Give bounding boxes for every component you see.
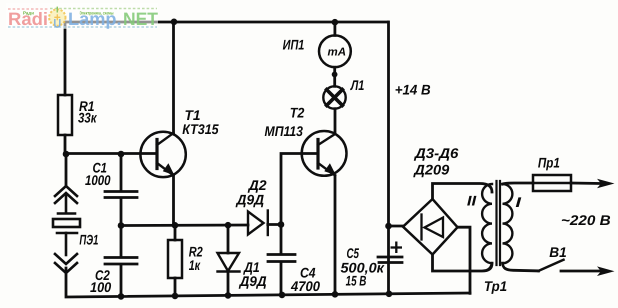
wire R2 branch [174, 225, 177, 240]
resistor R2 [168, 240, 182, 278]
wire C1 to node B [120, 198, 123, 226]
capacitor C4 [268, 255, 295, 262]
wire R1 to node A [64, 135, 67, 154]
wire bridge minus to bottom rail [458, 227, 471, 293]
wire winding II bottom to bridge bottom [433, 255, 493, 272]
logo dashed line bottom [8, 26, 157, 28]
logo lamp bulb [49, 7, 65, 27]
wire meter to top rail [333, 22, 336, 35]
svg-text:~220 В: ~220 В [561, 212, 611, 228]
fuse Pr1 [533, 175, 571, 191]
piezo PE1 top lead [65, 154, 68, 186]
wire mid rail [121, 224, 248, 227]
wire D1 to bottom rail [227, 272, 230, 295]
lamp L1 [323, 86, 345, 108]
capacitor C1 [105, 192, 137, 198]
wire C4 to bottom rail [280, 262, 283, 295]
wire bridge top to winding II [433, 184, 493, 200]
diode D2 [248, 211, 268, 236]
svg-text:4700: 4700 [290, 278, 320, 294]
svg-text:Т2: Т2 [290, 105, 305, 121]
switch B1 [539, 260, 564, 271]
wire fuse to line out [571, 182, 600, 185]
svg-text:В1: В1 [549, 244, 567, 260]
svg-text:100: 100 [90, 279, 111, 295]
wire T1 collector [172, 22, 175, 133]
svg-text:ИП1: ИП1 [283, 37, 305, 53]
transformer winding I [503, 184, 513, 263]
wire T1 emitter [172, 176, 175, 226]
T2 emitter arrow [324, 163, 336, 175]
svg-text:МП113: МП113 [265, 123, 304, 139]
svg-text:Д9Д: Д9Д [239, 273, 267, 289]
capacitor C5 [378, 257, 402, 263]
piezo PE1 [53, 186, 80, 273]
svg-text:Тр1: Тр1 [484, 278, 507, 294]
arrow line out top [597, 179, 615, 189]
svg-text:ПЭ1: ПЭ1 [79, 232, 98, 248]
wire left branch to R1 [64, 22, 67, 95]
wire PE1 to bottom rail [66, 268, 470, 297]
svg-text:Д209: Д209 [413, 162, 449, 178]
T1 emitter arrow [163, 163, 175, 175]
meter IP1 [319, 35, 351, 67]
wire node C to T2 base [281, 154, 318, 225]
svg-text:mA: mA [328, 47, 347, 59]
transistor T2 [302, 131, 347, 176]
transformer core [495, 181, 497, 265]
svg-text:II: II [467, 193, 478, 209]
svg-text:КТ315: КТ315 [182, 121, 218, 137]
arrow line out bottom [597, 266, 615, 276]
svg-text:Л1: Л1 [350, 77, 365, 93]
resistor R1 [58, 95, 72, 135]
transistor T1 [140, 132, 185, 177]
svg-text:Д3-Д6: Д3-Д6 [414, 145, 459, 161]
wire winding I bottom to switch [503, 263, 539, 271]
diode D1 [218, 253, 240, 272]
wire C2 to bottom rail [120, 265, 123, 297]
logo dashed line pink top [8, 8, 48, 10]
wire +14V rail [387, 22, 390, 294]
svg-text:Пр1: Пр1 [538, 155, 560, 171]
wire T2 collector to lamp [334, 109, 337, 134]
transformer winding II [482, 184, 492, 263]
wire switch to line out [561, 270, 600, 273]
wire C4 branch [280, 225, 283, 255]
svg-text:NET: NET [123, 9, 158, 29]
wire top rail [65, 21, 388, 24]
svg-text:15 В: 15 В [346, 273, 367, 289]
wire node A to T1 base [66, 152, 157, 155]
svg-text:Д9Д: Д9Д [236, 192, 265, 208]
wire T2 emitter [334, 176, 337, 295]
wire R2 to bottom rail [174, 278, 177, 296]
svg-text:33к: 33к [78, 110, 97, 126]
wire winding I top to fuse [503, 183, 534, 184]
wire C1 top lead [120, 154, 123, 191]
wire D2 to node C [268, 223, 281, 226]
svg-text:Radi: Radi [8, 9, 48, 29]
svg-text:1к: 1к [189, 257, 201, 273]
logo dashed line green top [50, 8, 157, 10]
wire lamp to meter [333, 67, 336, 86]
wire D1 branch [227, 225, 230, 253]
wire rail to bridge [389, 225, 404, 228]
svg-text:+14 В: +14 В [395, 82, 431, 98]
capacitor C2 [105, 258, 137, 265]
svg-text:1000: 1000 [85, 172, 111, 188]
C5 plus sign [391, 242, 403, 254]
bridge D3-D6 [403, 199, 458, 255]
wire node B to C2 [120, 226, 123, 258]
logo RadioLamp.NET [6, 3, 158, 29]
svg-text:Lamp.: Lamp. [68, 9, 122, 29]
